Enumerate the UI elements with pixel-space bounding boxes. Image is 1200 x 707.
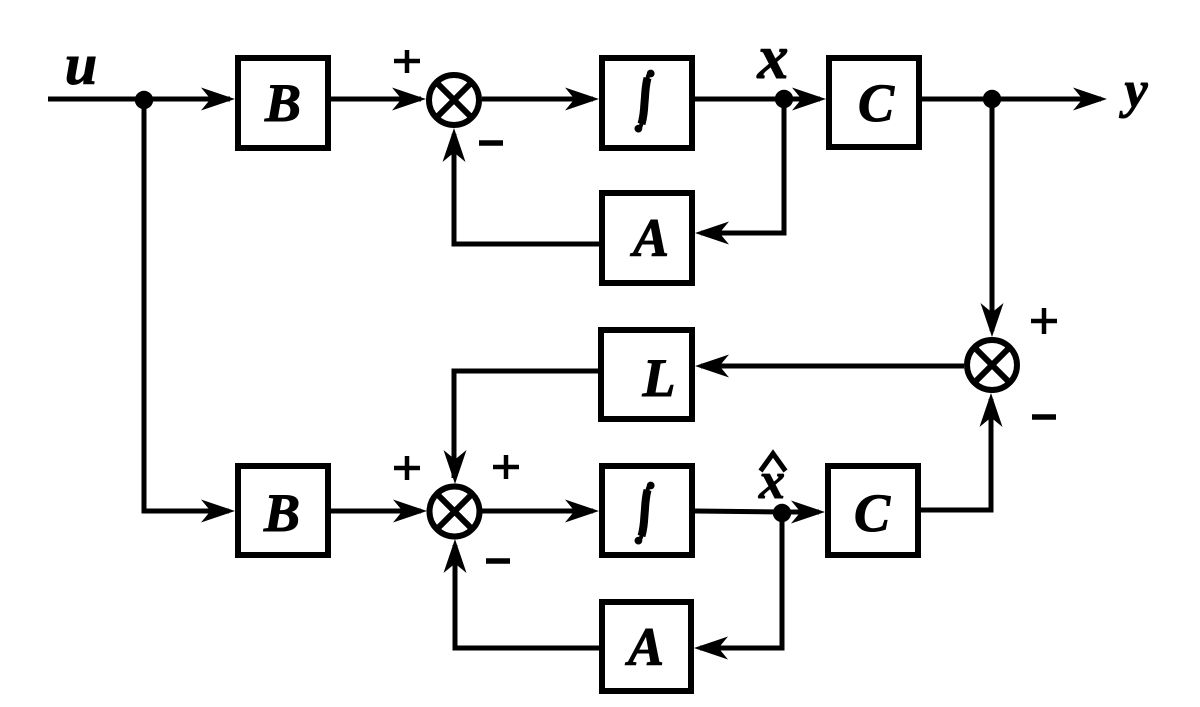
svg-text:u: u	[65, 32, 97, 97]
wire S2 to L	[695, 355, 964, 378]
wire L to S3	[444, 371, 599, 484]
svg-text:C: C	[858, 73, 895, 133]
block B1	[238, 58, 328, 148]
wire S3 to integrator2	[482, 500, 599, 523]
svg-text:B: B	[264, 73, 301, 133]
block A1	[602, 193, 692, 283]
svg-text:x: x	[757, 24, 789, 92]
svg-text:C: C	[854, 483, 891, 543]
label y	[1118, 62, 1148, 119]
svg-text:L: L	[642, 348, 676, 408]
block A2	[602, 602, 691, 691]
block B2	[238, 466, 328, 555]
wire node x down to A1	[695, 99, 784, 245]
wire A1 to S1	[443, 128, 600, 244]
label x	[757, 24, 789, 92]
label plus S3 top	[493, 455, 519, 479]
wire C2 up to S2	[921, 393, 1003, 510]
label minus S1	[479, 140, 503, 146]
node x	[775, 90, 793, 108]
block integrator2	[602, 466, 692, 555]
wire B2 to S3	[331, 500, 427, 523]
label plus S3 left	[394, 456, 420, 480]
svg-text:B: B	[263, 483, 300, 543]
wire A2 to S3	[444, 539, 600, 648]
summing junction S3	[430, 487, 480, 537]
label x-hat	[758, 453, 786, 510]
label minus S3	[486, 558, 510, 564]
block C1	[829, 58, 919, 147]
svg-text:A: A	[630, 208, 669, 268]
wire B1 to summing junction S1	[331, 88, 426, 111]
svg-text:A: A	[625, 617, 664, 677]
wire integrator2 to C2	[695, 501, 825, 524]
node y branch	[983, 90, 1001, 108]
wire u branch down to B2	[144, 100, 235, 523]
node x-hat	[773, 504, 791, 522]
label u	[65, 32, 97, 97]
label plus S1	[394, 50, 420, 73]
wire C1 to y output	[922, 88, 1107, 111]
label plus S2	[1031, 308, 1057, 334]
wire S1 to integrator1	[482, 88, 599, 111]
block C2	[828, 466, 918, 555]
wire node x-hat down to A2	[694, 513, 782, 660]
wire integrator1 to C1	[695, 88, 826, 111]
svg-text:y: y	[1118, 62, 1148, 119]
block L	[601, 330, 692, 419]
block integrator1	[602, 58, 692, 148]
node u branch	[135, 91, 153, 109]
label minus S2	[1032, 414, 1056, 420]
wire y branch down to S2	[981, 99, 1004, 337]
wire u input	[48, 88, 235, 111]
summing junction S1	[429, 75, 479, 125]
summing junction S2	[967, 340, 1017, 390]
